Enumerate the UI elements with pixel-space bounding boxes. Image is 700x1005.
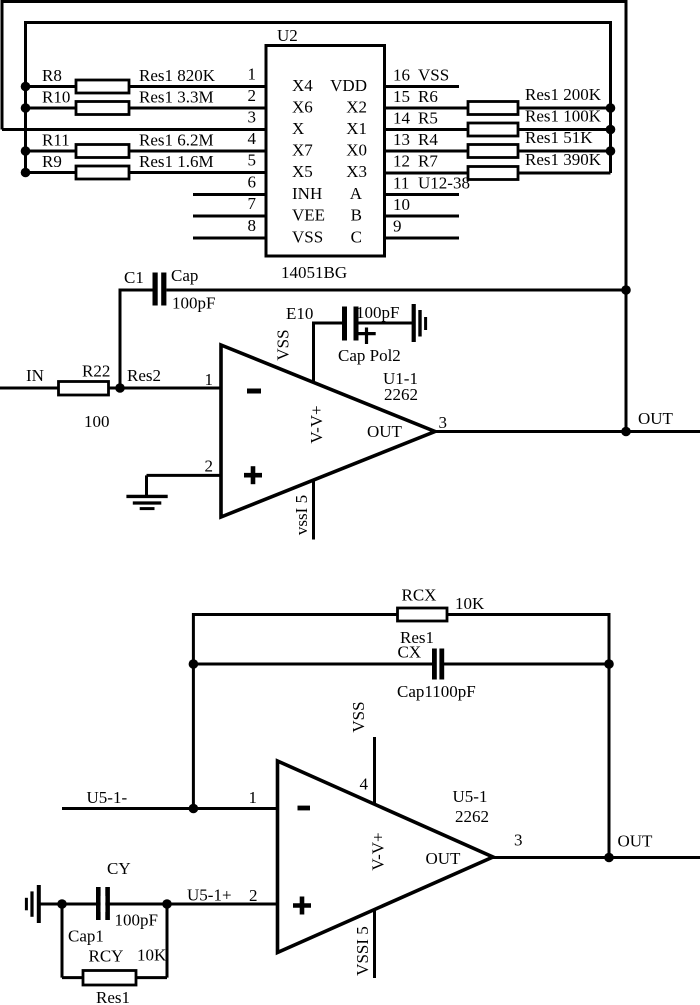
svg-text:5: 5	[248, 151, 257, 170]
svg-text:IN: IN	[26, 366, 44, 385]
svg-text:VEE: VEE	[292, 206, 325, 225]
svg-text:Res1 100K: Res1 100K	[525, 107, 602, 126]
svg-text:4: 4	[360, 775, 369, 794]
svg-text:10K: 10K	[137, 946, 167, 965]
svg-text:VSS: VSS	[418, 66, 449, 85]
svg-text:15: 15	[393, 87, 410, 106]
svg-text:U2: U2	[277, 26, 298, 45]
svg-text:U5-1: U5-1	[453, 787, 488, 806]
svg-text:3: 3	[439, 413, 448, 432]
svg-text:A: A	[350, 184, 363, 203]
svg-text:R22: R22	[82, 362, 110, 381]
svg-text:100pF: 100pF	[172, 294, 215, 313]
svg-text:VSSI 5: VSSI 5	[353, 926, 372, 976]
svg-text:E10: E10	[286, 304, 313, 323]
svg-text:10K: 10K	[455, 594, 485, 613]
svg-text:RCY: RCY	[89, 947, 124, 966]
svg-text:2262: 2262	[384, 385, 418, 404]
svg-text:OUT: OUT	[426, 849, 462, 868]
svg-text:3: 3	[248, 108, 257, 127]
svg-text:R6: R6	[418, 87, 438, 106]
svg-text:V-V+: V-V+	[369, 832, 388, 870]
svg-text:X5: X5	[292, 162, 313, 181]
svg-text:Res1 390K: Res1 390K	[525, 150, 602, 169]
svg-text:Cap1100pF: Cap1100pF	[397, 682, 476, 701]
svg-text:R11: R11	[42, 131, 70, 150]
svg-text:14051BG: 14051BG	[281, 263, 347, 282]
svg-text:OUT: OUT	[367, 422, 403, 441]
svg-text:OUT: OUT	[638, 409, 674, 428]
svg-text:C1: C1	[124, 268, 144, 287]
svg-text:R4: R4	[418, 130, 438, 149]
svg-text:10: 10	[393, 195, 410, 214]
svg-text:RCX: RCX	[402, 586, 437, 605]
svg-text:6: 6	[248, 173, 257, 192]
svg-text:VDD: VDD	[330, 76, 367, 95]
svg-text:R8: R8	[42, 66, 62, 85]
svg-text:OUT: OUT	[618, 832, 654, 851]
svg-text:2: 2	[249, 886, 258, 905]
svg-text:2: 2	[205, 457, 214, 476]
svg-text:X0: X0	[346, 141, 367, 160]
svg-text:8: 8	[248, 216, 257, 235]
svg-text:C: C	[351, 228, 362, 247]
svg-text:Cap: Cap	[171, 266, 198, 285]
svg-text:100: 100	[84, 412, 110, 431]
svg-text:X6: X6	[292, 98, 313, 117]
svg-text:U5-1-: U5-1-	[87, 788, 128, 807]
svg-text:VSS: VSS	[349, 701, 368, 732]
svg-text:VSS: VSS	[274, 329, 293, 360]
svg-text:U5-1+: U5-1+	[187, 886, 232, 905]
svg-text:13: 13	[393, 130, 410, 149]
svg-text:V-V+: V-V+	[307, 405, 326, 443]
svg-text:R10: R10	[42, 88, 70, 107]
svg-text:U12-38: U12-38	[418, 174, 470, 193]
svg-text:9: 9	[393, 217, 402, 236]
svg-text:R7: R7	[418, 152, 438, 171]
svg-text:B: B	[351, 206, 362, 225]
svg-text:X2: X2	[346, 98, 367, 117]
svg-text:X3: X3	[346, 162, 367, 181]
svg-text:1: 1	[248, 65, 257, 84]
svg-text:X7: X7	[292, 141, 313, 160]
svg-text:VSS: VSS	[292, 228, 323, 247]
svg-text:3: 3	[514, 831, 523, 850]
svg-text:1: 1	[249, 788, 258, 807]
svg-text:INH: INH	[292, 184, 322, 203]
svg-text:Cap1: Cap1	[68, 927, 104, 946]
svg-text:11: 11	[393, 174, 409, 193]
svg-text:Res1 820K: Res1 820K	[139, 66, 216, 85]
svg-text:R9: R9	[42, 152, 62, 171]
svg-text:X: X	[292, 119, 304, 138]
svg-text:CX: CX	[398, 643, 422, 662]
svg-text:100pF: 100pF	[356, 303, 399, 322]
svg-text:CY: CY	[107, 859, 131, 878]
svg-text:1: 1	[205, 370, 214, 389]
svg-text:Res1 6.2M: Res1 6.2M	[139, 131, 214, 150]
svg-text:2262: 2262	[455, 807, 489, 826]
svg-text:7: 7	[248, 194, 257, 213]
svg-text:Res1 51K: Res1 51K	[525, 128, 593, 147]
svg-text:Res1 200K: Res1 200K	[525, 85, 602, 104]
svg-text:R5: R5	[418, 109, 438, 128]
svg-text:X4: X4	[292, 76, 313, 95]
svg-text:Res1: Res1	[96, 988, 130, 1005]
svg-text:14: 14	[393, 109, 411, 128]
svg-text:Cap Pol2: Cap Pol2	[338, 346, 401, 365]
svg-text:Res2: Res2	[127, 366, 161, 385]
svg-text:vssI 5: vssI 5	[292, 495, 311, 535]
svg-text:X1: X1	[346, 119, 367, 138]
svg-text:4: 4	[248, 129, 257, 148]
svg-text:Res1 1.6M: Res1 1.6M	[139, 152, 214, 171]
svg-text:12: 12	[393, 152, 410, 171]
svg-text:16: 16	[393, 66, 410, 85]
svg-text:2: 2	[248, 86, 257, 105]
svg-text:Res1 3.3M: Res1 3.3M	[139, 88, 214, 107]
svg-text:100pF: 100pF	[115, 911, 158, 930]
